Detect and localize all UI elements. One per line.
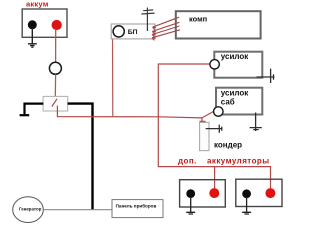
signal wire arrow 3 to комп: [152, 26, 179, 37]
amplifier усилок box: [214, 52, 262, 78]
instrument panel box: [112, 200, 163, 218]
wire bus to усилок terminal: [158, 64, 210, 117]
battery symbol right of кондер: [206, 125, 222, 133]
svg-text:усилок: усилок: [221, 52, 249, 61]
battery BAT2 box: [180, 180, 226, 207]
computer комп box: [176, 11, 261, 38]
wire relay right to chassis bus: [68, 104, 93, 210]
power supply БП box: [111, 24, 155, 39]
battery BAT2 positive terminal: [209, 188, 219, 198]
svg-text:саб: саб: [221, 98, 235, 107]
svg-text:БП: БП: [128, 29, 138, 36]
sub amplifier усилок саб box: [216, 88, 262, 115]
svg-text:аккумуляторы: аккумуляторы: [207, 157, 270, 166]
signal wire arrow 2 to комп: [152, 22, 179, 34]
wire generator to instrument panel: [43, 209, 112, 211]
svg-text:аккум: аккум: [26, 0, 49, 9]
antenna symbol above БП: [141, 8, 154, 32]
wire BAT1+ to fuse F1: [55, 29, 57, 62]
БП input terminal circle: [113, 26, 124, 37]
wire fuse to relay: [54, 74, 56, 98]
ground at relay: [20, 114, 30, 116]
capacitor кондер body: [200, 122, 209, 150]
wire relay output +12V bus: [57, 106, 202, 118]
ground under BAT1: [28, 28, 37, 47]
усилок саб input terminal: [214, 107, 223, 116]
svg-text:Панель приборов: Панель приборов: [116, 202, 157, 208]
battery BAT3 positive terminal: [265, 188, 275, 198]
wire drop to battery BAT2: [214, 167, 216, 189]
battery BAT2 negative terminal: [186, 189, 195, 198]
svg-text:усилок: усилок: [221, 89, 249, 98]
relay K1 switch contact: [52, 99, 57, 107]
battery BAT1 negative terminal: [28, 20, 37, 29]
signal wire arrow 1 to комп: [153, 17, 180, 30]
wire relay left to ground: [25, 104, 44, 115]
svg-text:кондер: кондер: [214, 141, 242, 150]
generator G: [13, 197, 44, 223]
wire bus down to additional battery bus: [158, 117, 270, 188]
relay K1 box: [43, 96, 68, 111]
battery BAT3 negative terminal: [242, 189, 251, 198]
svg-text:доп.: доп.: [178, 157, 197, 166]
усилок input terminal: [210, 60, 219, 69]
chassis ground under sub amp: [250, 113, 262, 132]
battery symbol right of усилок: [257, 69, 275, 83]
ground under BAT3: [242, 197, 251, 214]
battery BAT3 box: [236, 179, 282, 206]
battery BAT1 box: [22, 9, 67, 37]
svg-text:комп: комп: [189, 15, 207, 24]
wire junction to sub amp terminal: [202, 111, 214, 118]
wire junction drop to capacitor: [200, 118, 206, 125]
signal wire arrow 4 to комп: [152, 30, 180, 41]
wire БП supply drop: [112, 37, 114, 117]
fuse F1: [49, 62, 61, 74]
svg-text:Генератор: Генератор: [19, 206, 42, 211]
battery BAT1 positive terminal: [52, 20, 62, 30]
ground under BAT2: [186, 197, 195, 214]
